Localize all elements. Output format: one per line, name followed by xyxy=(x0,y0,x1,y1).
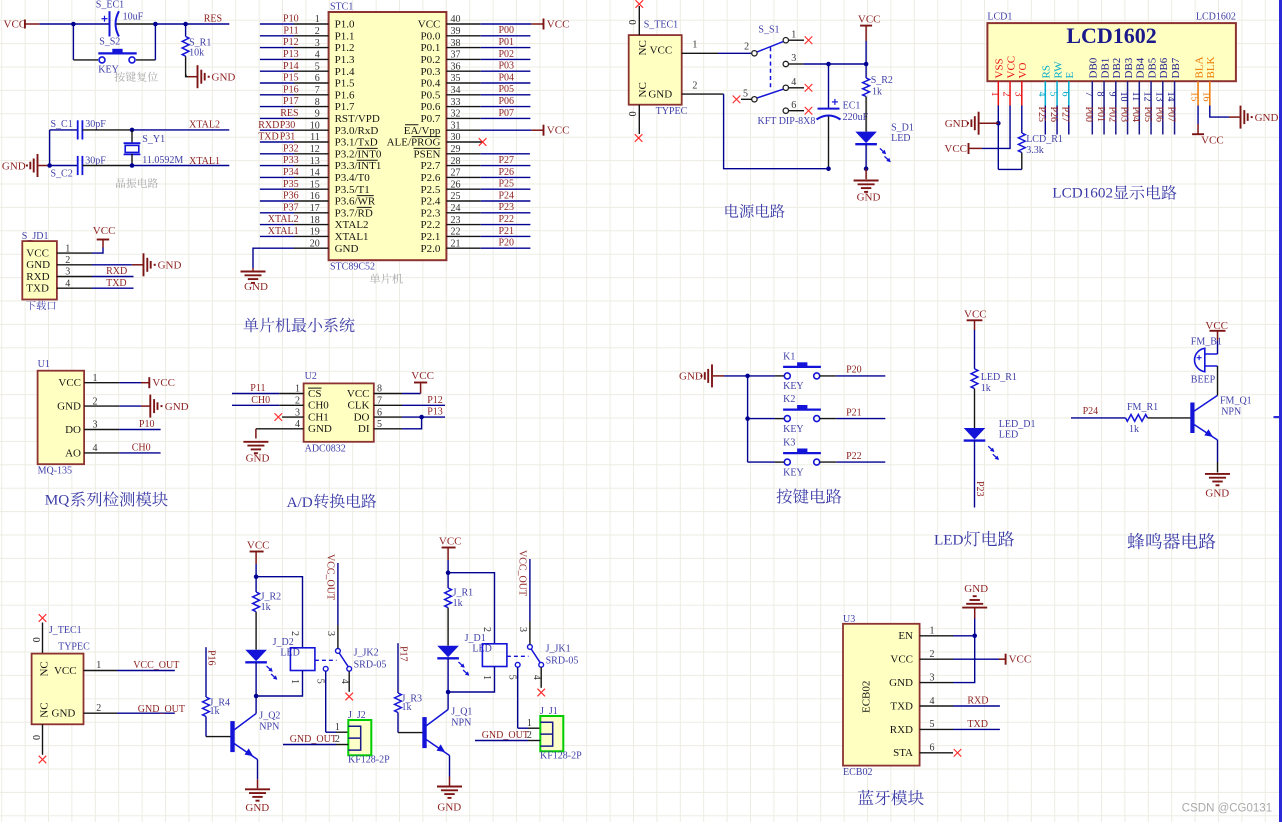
svg-text:10k: 10k xyxy=(189,48,204,59)
svg-text:P05: P05 xyxy=(498,84,514,95)
svg-text:5: 5 xyxy=(506,675,517,680)
svg-text:P3.4/T0: P3.4/T0 xyxy=(335,172,371,184)
wire VCC to junction xyxy=(865,41,867,64)
caption reset xyxy=(115,72,125,82)
svg-text:VCC: VCC xyxy=(4,19,27,31)
svg-text:VCC: VCC xyxy=(418,19,441,31)
caption download port xyxy=(26,301,35,310)
svg-text:10: 10 xyxy=(1118,92,1129,102)
svg-text:3: 3 xyxy=(325,631,336,636)
svg-text:P1.6: P1.6 xyxy=(335,89,355,101)
junction xyxy=(47,163,52,168)
svg-text:P31: P31 xyxy=(280,132,296,143)
svg-text:6: 6 xyxy=(930,743,935,754)
svg-text:VCC: VCC xyxy=(1201,135,1224,147)
pin 3 wire RXD xyxy=(57,276,92,278)
power port VCC (lcd left) xyxy=(968,143,970,154)
svg-text:CH0: CH0 xyxy=(308,400,329,412)
wire top stub with 0 xyxy=(638,6,640,35)
svg-text:P32: P32 xyxy=(283,143,299,154)
svg-text:GND_OUT: GND_OUT xyxy=(290,734,337,745)
svg-text:DB2: DB2 xyxy=(1111,58,1123,79)
junction xyxy=(446,690,451,695)
svg-text:2: 2 xyxy=(289,631,300,636)
svg-text:P27: P27 xyxy=(1060,107,1071,123)
svg-text:P22: P22 xyxy=(498,214,514,225)
svg-text:P27: P27 xyxy=(498,155,514,166)
svg-text:GND: GND xyxy=(165,401,189,413)
svg-text:DB4: DB4 xyxy=(1135,57,1147,78)
svg-text:A/D: A/D xyxy=(287,494,313,511)
svg-text:LCD_R1: LCD_R1 xyxy=(1026,134,1063,145)
svg-text:7: 7 xyxy=(315,85,320,96)
svg-text:P24: P24 xyxy=(498,190,514,201)
svg-text:14: 14 xyxy=(310,168,320,179)
wire K2 to P21 xyxy=(820,418,837,420)
wire pin4 stub with X xyxy=(348,671,350,692)
svg-text:GND: GND xyxy=(158,260,182,272)
svg-text:VCC: VCC xyxy=(26,247,49,259)
svg-text:8: 8 xyxy=(1095,92,1106,97)
svg-text:VCC: VCC xyxy=(411,370,434,382)
wire GND_OUT xyxy=(475,740,528,742)
svg-text:SRD-05: SRD-05 xyxy=(546,656,579,667)
pin 1 wire to VCC xyxy=(57,252,92,254)
resistor J_R2 1k xyxy=(255,577,257,592)
svg-text:GND: GND xyxy=(246,452,270,464)
power port GND (power circuit) xyxy=(865,169,867,180)
caption bluetooth module xyxy=(858,790,873,805)
svg-text:VCC: VCC xyxy=(247,539,270,551)
svg-text:3: 3 xyxy=(517,627,528,632)
svg-text:P34: P34 xyxy=(283,167,299,178)
svg-text:1k: 1k xyxy=(453,598,463,609)
svg-text:GND: GND xyxy=(26,259,50,271)
svg-text:VCC: VCC xyxy=(547,18,570,30)
svg-text:LCD1602: LCD1602 xyxy=(1052,185,1113,202)
power port VCC (U1) xyxy=(148,377,150,388)
wire resistor to LED xyxy=(255,612,257,650)
wire resistor to LED xyxy=(447,608,449,646)
svg-text:1k: 1k xyxy=(872,87,882,98)
resistor FM_R1 1k xyxy=(1126,415,1148,422)
svg-text:CLK: CLK xyxy=(348,400,370,412)
wire pin5 to connector xyxy=(517,667,519,728)
svg-text:U2: U2 xyxy=(305,371,317,382)
svg-text:P2.5: P2.5 xyxy=(421,184,441,196)
svg-text:VCC_OUT: VCC_OUT xyxy=(516,550,527,596)
svg-text:P3.0/RxD: P3.0/RxD xyxy=(335,125,379,137)
pin 1 wire P11 xyxy=(279,393,303,395)
junction xyxy=(254,574,259,579)
svg-text:S_S1: S_S1 xyxy=(758,25,779,36)
wire resistor to LED xyxy=(974,389,976,428)
svg-text:EN: EN xyxy=(898,630,913,642)
no-connect X top xyxy=(636,0,644,8)
svg-text:P0.4: P0.4 xyxy=(421,78,441,90)
svg-text:FM_Q1: FM_Q1 xyxy=(1220,396,1252,407)
svg-text:P24: P24 xyxy=(1083,406,1099,417)
svg-text:P2.0: P2.0 xyxy=(421,243,441,255)
resistor S_R1 10k xyxy=(185,24,187,37)
svg-text:VCC: VCC xyxy=(547,125,570,137)
svg-text:VO: VO xyxy=(1017,63,1029,79)
svg-text:P04: P04 xyxy=(1130,107,1141,123)
pin 2 wire to bottom rail xyxy=(682,93,724,95)
svg-text:EA/Vpp: EA/Vpp xyxy=(404,125,441,137)
pin 2 wire to GND xyxy=(84,405,119,407)
svg-text:S_C2: S_C2 xyxy=(51,169,73,180)
junction xyxy=(153,22,158,27)
svg-text:P0.3: P0.3 xyxy=(421,66,441,78)
svg-text:J_R2: J_R2 xyxy=(261,592,282,603)
svg-text:RXD: RXD xyxy=(26,271,49,283)
junction xyxy=(71,22,76,27)
svg-text:P03: P03 xyxy=(498,61,514,72)
svg-text:0: 0 xyxy=(626,111,637,116)
svg-text:RXD: RXD xyxy=(258,120,279,131)
svg-text:LED_D1: LED_D1 xyxy=(999,419,1036,430)
svg-text:P30: P30 xyxy=(280,120,296,131)
svg-text:0: 0 xyxy=(626,20,637,25)
svg-text:P13: P13 xyxy=(427,407,443,418)
svg-text:E: E xyxy=(1064,72,1076,79)
svg-text:P3.6/WR: P3.6/WR xyxy=(335,196,376,208)
resistor S_R2 1k xyxy=(865,64,867,78)
pin 4 wire TXD xyxy=(57,287,92,289)
pin 14 P3.4/T0 (left) xyxy=(294,176,329,178)
power port GND (U1) xyxy=(149,395,151,418)
svg-text:1: 1 xyxy=(481,675,492,680)
svg-text:J_Q1: J_Q1 xyxy=(451,707,472,718)
svg-text:4: 4 xyxy=(531,675,542,680)
pin 5 wire xyxy=(374,428,402,430)
wire junction to RES junction xyxy=(155,23,229,25)
wire pin3 VCC_OUT xyxy=(529,621,531,644)
svg-text:P0.1: P0.1 xyxy=(421,42,441,54)
svg-text:5: 5 xyxy=(930,719,935,730)
pin 5 P1.4 (left) xyxy=(294,70,329,72)
svg-text:RW: RW xyxy=(1052,61,1064,79)
relay J_JK1 SRD-05 coil xyxy=(482,644,507,667)
junction xyxy=(745,374,750,379)
pin 1 P1.0 (left) xyxy=(294,23,329,25)
svg-text:BLA: BLA xyxy=(1193,56,1205,78)
svg-text:GND: GND xyxy=(1255,112,1279,124)
sheet border right edge xyxy=(1279,0,1282,822)
junction xyxy=(996,121,1001,126)
svg-text:STC89C52: STC89C52 xyxy=(330,261,375,272)
svg-text:CH1: CH1 xyxy=(308,411,329,423)
svg-text:2: 2 xyxy=(744,41,749,52)
wire VCC to junction xyxy=(255,564,257,577)
wire coil to bottom rail xyxy=(448,667,494,693)
net labels P25 P26 P27 xyxy=(1044,106,1046,135)
wire pin3 net xyxy=(789,63,804,65)
svg-text:P3.2/INT0: P3.2/INT0 xyxy=(335,148,382,160)
svg-text:VCC: VCC xyxy=(54,665,77,677)
svg-text:PSEN: PSEN xyxy=(413,148,440,160)
wire pin3 VCC_OUT xyxy=(337,625,339,648)
pin 17 P3.7/RD (left) xyxy=(294,212,329,214)
power port GND (J_Q1) xyxy=(437,786,462,788)
wire pin5 to connector xyxy=(325,671,327,732)
wire LED to bottom junction xyxy=(255,662,257,696)
pin 2 wire CH0 xyxy=(279,404,303,406)
relay J_JK2 SRD-05 coil xyxy=(290,648,315,671)
wire vertical rail xyxy=(747,376,749,462)
wire P24 to resistor xyxy=(1071,417,1126,419)
wire emitter to GND xyxy=(1217,440,1219,462)
pin 1 wire to VCC xyxy=(84,382,119,384)
wire VCC to cap xyxy=(39,23,109,25)
svg-text:MQ-135: MQ-135 xyxy=(38,466,72,477)
svg-text:2: 2 xyxy=(481,627,492,632)
svg-text:NC: NC xyxy=(39,702,51,717)
pin 19 XTAL1 (left) xyxy=(294,235,329,237)
svg-text:ECB02: ECB02 xyxy=(843,767,872,778)
svg-text:P22: P22 xyxy=(846,451,862,462)
no-connect X (pin 30) xyxy=(479,138,487,146)
wire VCC to resistor xyxy=(974,330,976,369)
svg-text:P2.7: P2.7 xyxy=(421,160,441,172)
pin 6 wire P13 xyxy=(374,416,402,418)
svg-text:P1.1: P1.1 xyxy=(335,30,355,42)
pin 1 stub xyxy=(920,635,953,637)
svg-text:1: 1 xyxy=(930,626,935,637)
svg-text:J_Q2: J_Q2 xyxy=(259,711,280,722)
svg-text:J_D1: J_D1 xyxy=(465,633,486,644)
pin 2 stub xyxy=(920,658,953,660)
svg-text:P3.3/INT1: P3.3/INT1 xyxy=(335,160,382,172)
svg-text:VCC_OUT: VCC_OUT xyxy=(133,660,179,671)
svg-text:GND: GND xyxy=(889,677,913,689)
svg-text:1: 1 xyxy=(289,679,300,684)
svg-text:1k: 1k xyxy=(210,706,220,717)
svg-text:P2.2: P2.2 xyxy=(421,219,441,231)
svg-text:2: 2 xyxy=(335,734,340,745)
svg-text:1: 1 xyxy=(335,722,340,733)
power port VCC (U3) xyxy=(1005,654,1007,665)
svg-text:VCC: VCC xyxy=(964,309,987,321)
svg-text:LCD1602: LCD1602 xyxy=(1066,23,1156,48)
caption power circuit xyxy=(725,204,738,218)
wire cap to junction xyxy=(117,23,156,25)
svg-text:P0.7: P0.7 xyxy=(421,113,441,125)
svg-text:GND: GND xyxy=(437,801,461,813)
wire buzzer to VCC xyxy=(1217,341,1219,355)
svg-text:KEY: KEY xyxy=(783,467,804,478)
svg-text:GND: GND xyxy=(648,89,672,101)
svg-text:DO: DO xyxy=(354,411,370,423)
svg-text:GND: GND xyxy=(244,281,268,293)
svg-text:P1.0: P1.0 xyxy=(335,19,355,31)
svg-text:P21: P21 xyxy=(498,226,514,237)
resistor J_R1 1k xyxy=(447,573,449,588)
svg-text:XTAL1: XTAL1 xyxy=(268,226,299,237)
svg-text:P1.4: P1.4 xyxy=(335,66,355,78)
svg-text:P20: P20 xyxy=(498,238,514,249)
svg-text:J_D2: J_D2 xyxy=(273,637,294,648)
svg-text:P11: P11 xyxy=(283,25,298,36)
svg-text:P25: P25 xyxy=(1036,107,1047,123)
svg-text:RES: RES xyxy=(280,108,298,119)
svg-text:CH0: CH0 xyxy=(132,443,151,454)
svg-text:DO: DO xyxy=(65,424,81,436)
wire GND_OUT xyxy=(283,744,336,746)
svg-text:5: 5 xyxy=(1048,92,1059,97)
svg-text:12: 12 xyxy=(1142,92,1153,102)
svg-text:KEY: KEY xyxy=(98,65,119,76)
power port GND (J_Q2) xyxy=(245,788,270,790)
svg-text:J_R1: J_R1 xyxy=(453,588,474,599)
svg-text:P11: P11 xyxy=(250,383,265,394)
svg-text:LCD1: LCD1 xyxy=(987,11,1012,22)
crystal S_Y1 11.0592M xyxy=(131,130,133,143)
pin 8 P1.7 (left) xyxy=(294,106,329,108)
transistor FM_Q1 NPN xyxy=(1190,403,1194,434)
svg-text:GND: GND xyxy=(945,118,969,130)
svg-text:DB7: DB7 xyxy=(1170,57,1182,78)
svg-text:16: 16 xyxy=(1200,92,1211,102)
svg-text:6: 6 xyxy=(1059,92,1070,97)
svg-text:P2.6: P2.6 xyxy=(421,172,441,184)
svg-text:KF128-2P: KF128-2P xyxy=(540,750,582,761)
svg-text:P23: P23 xyxy=(498,202,514,213)
wire left rail xyxy=(49,130,51,166)
svg-text:10uF: 10uF xyxy=(123,12,144,23)
svg-text:RXD: RXD xyxy=(890,724,913,736)
svg-text:P05: P05 xyxy=(1142,107,1153,123)
svg-text:P17: P17 xyxy=(397,646,408,662)
svg-text:SRD-05: SRD-05 xyxy=(354,660,387,671)
svg-text:P15: P15 xyxy=(283,73,299,84)
pin 20 GND (left) xyxy=(294,247,329,249)
svg-text:CS: CS xyxy=(308,388,321,400)
svg-text:VCC: VCC xyxy=(944,143,967,155)
svg-text:P13: P13 xyxy=(283,49,299,60)
svg-text:AO: AO xyxy=(65,447,81,459)
wire RXD pin TXD net xyxy=(953,728,1000,730)
junction xyxy=(446,570,451,575)
svg-text:1k: 1k xyxy=(981,383,991,394)
svg-text:5: 5 xyxy=(743,89,748,100)
svg-text:GND: GND xyxy=(52,708,76,720)
pin 4 wire to GND xyxy=(256,428,304,430)
pin 2 wire GND_OUT xyxy=(84,712,118,714)
svg-text:P36: P36 xyxy=(283,191,299,202)
svg-text:CSDN @CG0131: CSDN @CG0131 xyxy=(1182,803,1272,815)
wire coil to bottom rail xyxy=(256,671,302,697)
wire lcd pin15 to VCC xyxy=(1197,106,1199,125)
svg-text:VCC: VCC xyxy=(439,535,462,547)
svg-text:VCC: VCC xyxy=(858,14,881,26)
svg-text:TXD: TXD xyxy=(258,132,279,143)
svg-text:DB3: DB3 xyxy=(1123,57,1135,78)
caption key circuit xyxy=(777,489,793,504)
pin 7 wire P12 xyxy=(374,404,402,406)
svg-text:J_JK1: J_JK1 xyxy=(546,644,571,655)
no-connect X (STA) xyxy=(954,749,962,757)
svg-text:TXD: TXD xyxy=(26,283,49,295)
pin 3 stub xyxy=(920,682,953,684)
svg-text:1: 1 xyxy=(791,29,796,40)
junction xyxy=(826,166,831,171)
svg-text:5: 5 xyxy=(315,61,320,72)
svg-text:18: 18 xyxy=(310,215,320,226)
svg-text:GND: GND xyxy=(857,192,881,204)
power port GND (S_JD1) xyxy=(143,253,145,276)
wire pin4 stub with X xyxy=(540,667,542,688)
svg-text:1: 1 xyxy=(527,718,532,729)
svg-text:STA: STA xyxy=(893,747,913,759)
svg-text:12: 12 xyxy=(310,144,320,155)
svg-text:K3: K3 xyxy=(783,438,795,449)
svg-text:LED: LED xyxy=(891,133,910,144)
junction xyxy=(183,22,188,27)
wire VCC to junction xyxy=(447,560,449,573)
pin 2 P1.1 (left) xyxy=(294,35,329,37)
svg-text:GND: GND xyxy=(245,802,269,814)
svg-text:P0.5: P0.5 xyxy=(421,89,441,101)
pin 16 P3.6/WR (left) xyxy=(294,200,329,202)
svg-text:VCC: VCC xyxy=(890,654,913,666)
wire S_R1 to GND xyxy=(185,56,187,74)
svg-text:P14: P14 xyxy=(283,61,299,72)
svg-text:15: 15 xyxy=(310,179,320,190)
ground GND (mcu pin20) xyxy=(252,268,254,271)
relay J_JK2 contacts xyxy=(315,659,337,661)
svg-text:19: 19 xyxy=(310,227,320,238)
svg-text:10: 10 xyxy=(310,120,320,131)
pin 15 P3.5/T1 (left) xyxy=(294,188,329,190)
wire emitter to GND xyxy=(449,756,451,777)
svg-text:P2.4: P2.4 xyxy=(421,196,441,208)
svg-text:4: 4 xyxy=(315,50,320,61)
svg-text:TXD: TXD xyxy=(106,278,127,289)
svg-text:P02: P02 xyxy=(498,49,514,60)
svg-text:30pF: 30pF xyxy=(85,155,106,166)
pin 1 wire VCC_OUT xyxy=(84,670,118,672)
svg-text:DB6: DB6 xyxy=(1158,57,1170,78)
svg-text:P02: P02 xyxy=(1107,107,1118,123)
svg-text:13: 13 xyxy=(310,156,320,167)
svg-text:EC1: EC1 xyxy=(843,100,861,111)
no-connect X bottom xyxy=(635,134,643,142)
svg-text:S_Y1: S_Y1 xyxy=(142,134,165,145)
junction xyxy=(864,166,869,171)
svg-text:2: 2 xyxy=(930,649,935,660)
power port VCC (lcd pin15) xyxy=(1192,133,1204,135)
wire bottom stub with 0 xyxy=(42,724,44,755)
power port VCC (pin 40) xyxy=(543,19,545,30)
svg-text:P1.7: P1.7 xyxy=(335,101,355,113)
svg-text:GND: GND xyxy=(2,161,26,173)
wire pin1 stub with X xyxy=(789,39,805,41)
wire lcd pin16 to GND xyxy=(1210,106,1229,118)
wire resistor to base xyxy=(1148,417,1191,419)
pin 4 P1.3 (left) xyxy=(294,58,329,60)
svg-text:3: 3 xyxy=(1012,92,1023,97)
svg-text:GND: GND xyxy=(964,583,988,595)
svg-text:VCC: VCC xyxy=(650,45,673,57)
pin 3 stub with X xyxy=(282,416,304,418)
svg-text:DB0: DB0 xyxy=(1088,57,1100,78)
svg-text:FM_R1: FM_R1 xyxy=(1127,402,1158,413)
transistor J_Q2 NPN xyxy=(230,721,234,752)
svg-text:LED: LED xyxy=(934,531,964,548)
wire K1 to P20 xyxy=(820,375,837,377)
